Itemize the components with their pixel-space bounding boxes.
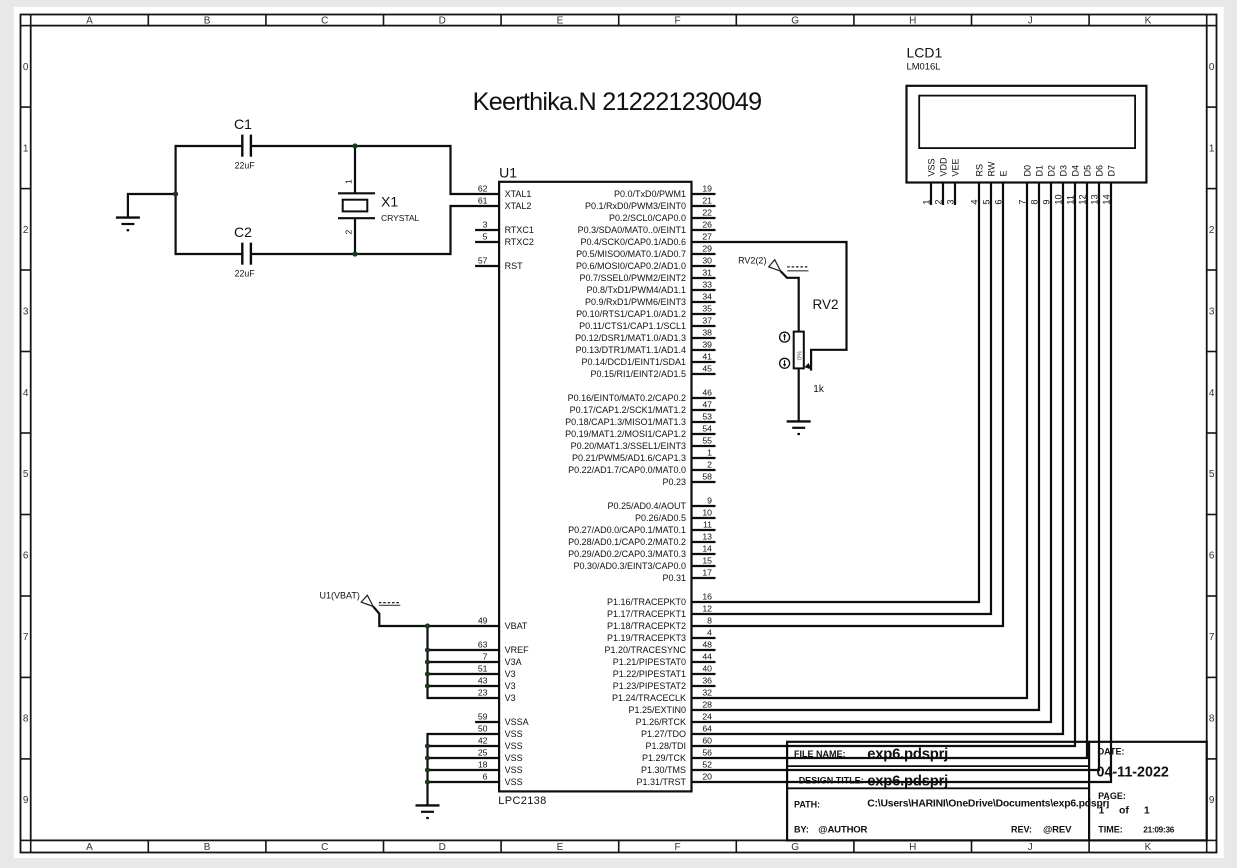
pin 6 VSS [483, 771, 523, 787]
svg-text:C1: C1 [234, 116, 252, 132]
svg-text:D4: D4 [1070, 165, 1080, 177]
svg-text:VSS: VSS [505, 777, 523, 787]
svg-text:24: 24 [702, 711, 712, 721]
svg-text:J: J [1028, 16, 1033, 27]
svg-text:P1.23/PIPESTAT2: P1.23/PIPESTAT2 [613, 681, 686, 691]
svg-text:32: 32 [702, 687, 712, 697]
svg-text:VREF: VREF [505, 645, 530, 655]
LCD pin 11 D4 [692, 165, 1081, 746]
pin 38 P0.12/DSR1/MAT1.0/AD1.3 [575, 327, 715, 343]
svg-text:37: 37 [702, 315, 712, 325]
pin 19 P0.0/TxD0/PWM1 [614, 183, 716, 199]
LCD pin 7 D0 [692, 165, 1033, 698]
svg-text:P1.22/PIPESTAT1: P1.22/PIPESTAT1 [613, 669, 686, 679]
svg-text:13: 13 [702, 531, 712, 541]
LCD pin 13 D6 [692, 165, 1105, 770]
LCD pin 6 E [692, 170, 1009, 626]
svg-text:RV2: RV2 [813, 297, 839, 312]
svg-text:P1.18/TRACEPKT2: P1.18/TRACEPKT2 [607, 621, 686, 631]
svg-text:@REV: @REV [1043, 824, 1072, 835]
title block box [787, 742, 1207, 841]
svg-text:1: 1 [1144, 805, 1150, 817]
svg-text:X1: X1 [381, 194, 398, 210]
svg-text:25: 25 [478, 747, 488, 757]
pin 40 P1.22/PIPESTAT1 [613, 663, 716, 679]
pin 41 P0.14/DCD1/EINT1/SDA1 [581, 351, 715, 367]
pin 50 VSS [478, 723, 523, 739]
crystal X1 [338, 193, 419, 223]
pin 4 P1.19/TRACEPKT3 [607, 627, 716, 643]
wire V3 pin 43 [428, 685, 500, 687]
wire XTAL1 from loop [451, 145, 500, 194]
svg-text:0: 0 [23, 62, 29, 73]
svg-text:P0.19/MAT1.2/MOSI1/CAP1.2: P0.19/MAT1.2/MOSI1/CAP1.2 [565, 429, 686, 439]
svg-text:10: 10 [702, 507, 712, 517]
ground (crystal loop) [116, 218, 140, 232]
svg-text:U1(VBAT): U1(VBAT) [320, 590, 360, 600]
svg-text:36: 36 [702, 675, 712, 685]
svg-text:U1: U1 [499, 164, 517, 180]
svg-text:38: 38 [702, 327, 712, 337]
pin 21 P0.1/RxD0/PWM3/EINT0 [585, 195, 716, 211]
RV2 up adjust circle [780, 332, 790, 342]
svg-text:P0.17/CAP1.2/SCK1/MAT1.2: P0.17/CAP1.2/SCK1/MAT1.2 [570, 405, 686, 415]
node junction VSS (42) [425, 743, 430, 748]
svg-text:P0.30/AD0.3/EINT3/CAP0.0: P0.30/AD0.3/EINT3/CAP0.0 [573, 561, 686, 571]
svg-text:59: 59 [478, 711, 488, 721]
svg-text:P0.9/RxD1/PWM6/EINT3: P0.9/RxD1/PWM6/EINT3 [585, 297, 686, 307]
svg-text:RW: RW [986, 161, 996, 176]
svg-text:P1.16/TRACEPKT0: P1.16/TRACEPKT0 [607, 597, 686, 607]
svg-text:P0.21/PWM5/AD1.6/CAP1.3: P0.21/PWM5/AD1.6/CAP1.3 [572, 453, 686, 463]
svg-text:21:09:36: 21:09:36 [1143, 825, 1174, 834]
svg-text:22: 22 [702, 207, 712, 217]
pin 26 P0.3/SDA0/MAT0..0/EINT1 [578, 219, 716, 235]
svg-text:8: 8 [23, 714, 29, 725]
svg-text:34: 34 [702, 291, 712, 301]
pin 57 RST [475, 255, 523, 271]
svg-text:DESIGN TITLE:: DESIGN TITLE: [799, 775, 864, 785]
svg-text:1: 1 [23, 143, 29, 154]
title block BY row [794, 824, 1072, 835]
pin 43 V3 [478, 675, 516, 691]
svg-text:7: 7 [483, 651, 488, 661]
wire loop left vertical [175, 145, 177, 255]
svg-text:C2: C2 [234, 224, 252, 240]
svg-text:LCD1: LCD1 [907, 45, 943, 61]
svg-text:62: 62 [478, 183, 488, 193]
capacitor C2 [234, 224, 255, 278]
LCD pin 2 VDD [933, 157, 948, 205]
svg-text:1: 1 [1209, 143, 1215, 154]
svg-text:23: 23 [478, 687, 488, 697]
svg-text:3: 3 [23, 306, 29, 317]
pin 58 P0.23 [662, 471, 715, 487]
svg-text:P1.24/TRACECLK: P1.24/TRACECLK [612, 693, 686, 703]
svg-text:17: 17 [702, 567, 712, 577]
pin 37 P0.11/CTS1/CAP1.1/SCL1 [579, 315, 715, 331]
svg-text:19: 19 [702, 183, 712, 193]
svg-text:61: 61 [478, 195, 488, 205]
wire RV2 bottom to ground [798, 368, 800, 421]
svg-text:VSS: VSS [505, 753, 523, 763]
svg-text:H: H [909, 16, 916, 27]
svg-text:29: 29 [702, 243, 712, 253]
svg-text:45: 45 [702, 363, 712, 373]
pin 33 P0.8/TxD1/PWM4/AD1.1 [586, 279, 715, 295]
wire VREF pin 63 [428, 649, 500, 651]
svg-text:PAGE:: PAGE: [1098, 791, 1126, 801]
svg-text:28: 28 [702, 699, 712, 709]
svg-text:F: F [674, 16, 680, 27]
svg-text:12: 12 [702, 603, 712, 613]
svg-text:exp6.pdsprj: exp6.pdsprj [867, 747, 948, 763]
svg-text:TIME:: TIME: [1098, 824, 1123, 834]
svg-text:D5: D5 [1082, 165, 1092, 177]
svg-text:P0.22/AD1.7/CAP0.0/MAT0.0: P0.22/AD1.7/CAP0.0/MAT0.0 [568, 465, 686, 475]
wire ground stub left [128, 194, 176, 217]
svg-text:P1.31/TRST: P1.31/TRST [636, 777, 686, 787]
svg-text:P1.21/PIPESTAT0: P1.21/PIPESTAT0 [613, 657, 686, 667]
RV2 down adjust circle [780, 358, 790, 368]
wire bottom loop left segment [176, 253, 243, 255]
pin 10 P0.26/AD0.5 [635, 507, 716, 523]
svg-text:P0.27/AD0.0/CAP0.1/MAT0.1: P0.27/AD0.0/CAP0.1/MAT0.1 [568, 525, 686, 535]
pin 5 RTXC2 [475, 231, 534, 247]
pin 42 VSS [478, 735, 523, 751]
svg-text:LPC2138: LPC2138 [498, 795, 546, 807]
wire VBAT terminal to pin 49 [373, 607, 499, 627]
terminal U1(VBAT) [320, 590, 374, 606]
svg-text:04-11-2022: 04-11-2022 [1097, 765, 1169, 781]
svg-text:22uF: 22uF [235, 160, 256, 170]
pin 32 P1.24/TRACECLK [612, 687, 712, 703]
pin 12 P1.17/TRACEPKT1 [607, 603, 712, 619]
svg-text:F: F [674, 842, 680, 853]
svg-text:VSS: VSS [505, 741, 523, 751]
RV2 wiper arrow [804, 363, 811, 370]
pin 49 VBAT [478, 615, 528, 631]
node junction VSS (18) [425, 767, 430, 772]
svg-text:RST: RST [505, 261, 524, 271]
pin 20 P1.31/TRST [636, 771, 712, 787]
svg-text:V3A: V3A [505, 657, 522, 667]
pin 7 V3A [483, 651, 522, 667]
svg-text:9: 9 [1209, 795, 1215, 806]
LCD pin 3 VEE [945, 158, 960, 205]
svg-text:E: E [998, 170, 1008, 176]
pin 8 P1.18/TRACEPKT2 [607, 615, 712, 631]
node junction V3 (51) [425, 671, 430, 676]
pin 25 VSS [478, 747, 523, 763]
svg-text:C:\Users\HARINI\OneDrive\Docum: C:\Users\HARINI\OneDrive\Documents\exp6.… [867, 799, 1109, 810]
svg-text:G: G [791, 842, 799, 853]
svg-text:6: 6 [23, 551, 29, 562]
pin 13 P0.28/AD0.1/CAP0.2/MAT0.2 [568, 531, 715, 547]
svg-text:63: 63 [478, 639, 488, 649]
svg-text:D6: D6 [1094, 165, 1104, 177]
svg-text:P0.2/SCL0/CAP0.0: P0.2/SCL0/CAP0.0 [609, 213, 686, 223]
pin 34 P0.9/RxD1/PWM6/EINT3 [585, 291, 716, 307]
svg-text:E: E [557, 16, 564, 27]
svg-text:VSS: VSS [505, 729, 523, 739]
svg-text:RV2(2): RV2(2) [738, 256, 766, 266]
pin 35 P0.10/RTS1/CAP1.0/AD1.2 [576, 303, 715, 319]
svg-text:VSSA: VSSA [505, 717, 529, 727]
pin 15 P0.30/AD0.3/EINT3/CAP0.0 [573, 555, 715, 571]
svg-text:D0: D0 [1022, 165, 1032, 177]
wire V3A pin 7 [428, 661, 500, 663]
svg-text:3: 3 [483, 219, 488, 229]
svg-text:PATH:: PATH: [794, 800, 820, 810]
svg-text:P0.13/DTR1/MAT1.1/AD1.4: P0.13/DTR1/MAT1.1/AD1.4 [576, 345, 686, 355]
pin 62 XTAL1 [478, 183, 532, 199]
svg-text:REV:: REV: [1011, 824, 1032, 834]
svg-text:LM016L: LM016L [907, 61, 941, 72]
svg-text:5: 5 [23, 469, 29, 480]
node junction V3A [425, 659, 430, 664]
pin 52 P1.30/TMS [641, 759, 712, 775]
svg-text:50: 50 [478, 723, 488, 733]
svg-text:RTXC1: RTXC1 [505, 225, 534, 235]
pin 48 P1.20/TRACESYNC [604, 639, 715, 655]
svg-text:P1.20/TRACESYNC: P1.20/TRACESYNC [604, 645, 686, 655]
svg-text:1: 1 [707, 447, 712, 457]
LCD pin 10 D3 [692, 165, 1069, 734]
node junction loop top [352, 143, 357, 148]
title block PATH row [794, 799, 1109, 810]
pin 51 V3 [478, 663, 516, 679]
pin 11 P0.27/AD0.0/CAP0.1/MAT0.1 [568, 519, 715, 535]
wire VSS pin 18 [428, 769, 500, 771]
svg-text:6: 6 [483, 771, 488, 781]
pin 64 P1.27/TDO [641, 723, 712, 739]
wire VSS pin 25 [428, 757, 500, 759]
title block TIME cell [1098, 824, 1174, 834]
svg-text:D1: D1 [1034, 165, 1044, 177]
svg-text:P0.28/AD0.1/CAP0.2/MAT0.2: P0.28/AD0.1/CAP0.2/MAT0.2 [568, 537, 686, 547]
title block DESIGN TITLE row [799, 773, 948, 789]
node junction VSS (25) [425, 755, 430, 760]
pin 31 P0.7/SSEL0/PWM2/EINT2 [579, 267, 715, 283]
svg-text:26: 26 [702, 219, 712, 229]
svg-text:8: 8 [707, 615, 712, 625]
svg-text:27: 27 [702, 231, 712, 241]
pin 27 P0.4/SCK0/CAP0.1/AD0.6 [580, 231, 712, 247]
svg-text:P1.28/TDI: P1.28/TDI [645, 741, 686, 751]
wire VSS pin 42 [428, 745, 500, 747]
svg-text:RTXC2: RTXC2 [505, 237, 534, 247]
svg-text:P1.19/TRACEPKT3: P1.19/TRACEPKT3 [607, 633, 686, 643]
svg-text:P0.4/SCK0/CAP0.1/AD0.6: P0.4/SCK0/CAP0.1/AD0.6 [580, 237, 686, 247]
svg-text:7: 7 [23, 632, 29, 643]
pin 9 P0.25/AD0.4/AOUT [607, 495, 715, 511]
svg-text:D7: D7 [1106, 165, 1116, 177]
svg-text:11: 11 [703, 519, 712, 529]
svg-text:Keerthika.N 212221230049: Keerthika.N 212221230049 [473, 88, 762, 116]
svg-text:D2: D2 [1046, 165, 1056, 177]
pin 1 P0.21/PWM5/AD1.6/CAP1.3 [572, 447, 716, 463]
svg-text:49: 49 [478, 615, 488, 625]
svg-text:XTAL2: XTAL2 [505, 201, 532, 211]
svg-text:52: 52 [702, 759, 712, 769]
svg-text:2: 2 [23, 225, 29, 236]
svg-text:V3: V3 [505, 669, 516, 679]
svg-text:P0.26/AD0.5: P0.26/AD0.5 [635, 513, 686, 523]
title block PAGE cell [1098, 791, 1150, 816]
svg-text:G: G [791, 16, 799, 27]
svg-text:P1.26/RTCK: P1.26/RTCK [636, 717, 686, 727]
pin 17 P0.31 [662, 567, 715, 583]
svg-text:7: 7 [1209, 632, 1215, 643]
pin 53 P0.18/CAP1.3/MISO1/MAT1.3 [565, 411, 715, 427]
capacitor C1 [234, 116, 255, 170]
svg-text:22uF: 22uF [235, 268, 256, 278]
pin 36 P1.23/PIPESTAT2 [613, 675, 716, 691]
svg-text:4: 4 [23, 388, 29, 399]
svg-text:P1.17/TRACEPKT1: P1.17/TRACEPKT1 [607, 609, 686, 619]
svg-text:H: H [909, 842, 916, 853]
svg-text:B: B [204, 842, 211, 853]
op-amp U1 body (LPC2138 microcontroller) [499, 182, 691, 792]
pin 39 P0.13/DTR1/MAT1.1/AD1.4 [576, 339, 716, 355]
svg-text:1k: 1k [813, 384, 825, 395]
svg-text:P0.8/TxD1/PWM4/AD1.1: P0.8/TxD1/PWM4/AD1.1 [586, 285, 686, 295]
svg-text:33: 33 [702, 279, 712, 289]
svg-text:J: J [1028, 842, 1033, 853]
svg-text:P1.27/TDO: P1.27/TDO [641, 729, 686, 739]
svg-text:@AUTHOR: @AUTHOR [818, 824, 867, 835]
pin 2 P0.22/AD1.7/CAP0.0/MAT0.0 [568, 459, 715, 475]
LCD pin 4 RS [692, 164, 985, 602]
pin 44 P1.21/PIPESTAT0 [613, 651, 716, 667]
svg-text:39: 39 [702, 339, 712, 349]
svg-text:BY:: BY: [794, 824, 809, 834]
svg-text:D: D [439, 16, 446, 27]
terminal RV2(2) [738, 256, 781, 272]
svg-text:5: 5 [1209, 469, 1215, 480]
svg-text:58: 58 [702, 471, 712, 481]
wire VSS pin 50 [428, 733, 500, 735]
node junction VSS (6) [425, 779, 430, 784]
ground (RV2) [787, 421, 811, 435]
pin 28 P1.25/EXTIN0 [628, 699, 712, 715]
svg-text:V3: V3 [505, 693, 516, 703]
svg-text:8: 8 [1209, 714, 1215, 725]
svg-text:P0.3/SDA0/MAT0..0/EINT1: P0.3/SDA0/MAT0..0/EINT1 [578, 225, 686, 235]
svg-text:of: of [1119, 805, 1129, 817]
pin 54 P0.19/MAT1.2/MOSI1/CAP1.2 [565, 423, 715, 439]
svg-text:A: A [86, 16, 93, 27]
svg-text:V3: V3 [505, 681, 516, 691]
pin 14 P0.29/AD0.2/CAP0.3/MAT0.3 [568, 543, 715, 559]
ground (VSS bus) [416, 805, 440, 819]
svg-text:21: 21 [702, 195, 712, 205]
pin 18 VSS [478, 759, 523, 775]
svg-text:0%: 0% [796, 351, 803, 361]
svg-text:2: 2 [1209, 225, 1215, 236]
svg-text:14: 14 [702, 543, 712, 553]
svg-text:53: 53 [702, 411, 712, 421]
svg-text:40: 40 [702, 663, 712, 673]
svg-text:XTAL1: XTAL1 [505, 189, 532, 199]
svg-text:20: 20 [702, 771, 712, 781]
svg-text:41: 41 [702, 351, 712, 361]
svg-text:P0.20/MAT1.3/SSEL1/EINT3: P0.20/MAT1.3/SSEL1/EINT3 [571, 441, 686, 451]
svg-text:P0.0/TxD0/PWM1: P0.0/TxD0/PWM1 [614, 189, 686, 199]
pin 56 P1.29/TCK [642, 747, 712, 763]
svg-text:K: K [1145, 842, 1152, 853]
svg-text:31: 31 [702, 267, 712, 277]
pin 23 V3 [478, 687, 516, 703]
svg-text:RS: RS [974, 164, 984, 177]
svg-text:1: 1 [344, 179, 354, 184]
LCD pin 1 VSS [921, 158, 936, 205]
svg-text:16: 16 [702, 591, 712, 601]
svg-text:P0.15/RI1/EINT2/AD1.5: P0.15/RI1/EINT2/AD1.5 [590, 369, 686, 379]
node junction VBAT [425, 623, 430, 628]
wire V3 pin 23 [428, 697, 500, 699]
svg-text:P0.25/AD0.4/AOUT: P0.25/AD0.4/AOUT [607, 501, 686, 511]
wire VBAT bus vertical [426, 626, 428, 699]
svg-text:P1.25/EXTIN0: P1.25/EXTIN0 [628, 705, 686, 715]
svg-text:VDD: VDD [938, 157, 948, 177]
svg-text:K: K [1145, 16, 1152, 27]
svg-text:D3: D3 [1058, 165, 1068, 177]
svg-text:1: 1 [1099, 805, 1105, 817]
potentiometer RV2 [794, 332, 804, 369]
svg-text:CRYSTAL: CRYSTAL [381, 213, 419, 223]
svg-text:P0.31: P0.31 [662, 573, 686, 583]
svg-text:P0.10/RTS1/CAP1.0/AD1.2: P0.10/RTS1/CAP1.0/AD1.2 [576, 309, 686, 319]
svg-text:56: 56 [702, 747, 712, 757]
wire top loop right segment [251, 145, 451, 147]
pin 30 P0.6/MOSI0/CAP0.2/AD1.0 [576, 255, 716, 271]
node junction ground tap [173, 191, 178, 196]
svg-text:3: 3 [1209, 306, 1215, 317]
svg-text:18: 18 [478, 759, 488, 769]
svg-text:P0.6/MOSI0/CAP0.2/AD1.0: P0.6/MOSI0/CAP0.2/AD1.0 [576, 261, 686, 271]
LCD pin 12 D5 [692, 165, 1093, 758]
svg-text:P0.29/AD0.2/CAP0.3/MAT0.3: P0.29/AD0.2/CAP0.3/MAT0.3 [568, 549, 686, 559]
svg-text:P0.11/CTS1/CAP1.1/SCL1: P0.11/CTS1/CAP1.1/SCL1 [579, 321, 686, 331]
svg-text:57: 57 [478, 255, 488, 265]
svg-text:B: B [204, 16, 211, 27]
wire crystal bottom branch [354, 218, 356, 254]
svg-text:P0.1/RxD0/PWM3/EINT0: P0.1/RxD0/PWM3/EINT0 [585, 201, 686, 211]
svg-text:9: 9 [707, 495, 712, 505]
pin 55 P0.20/MAT1.3/SSEL1/EINT3 [571, 435, 716, 451]
svg-text:D: D [439, 842, 446, 853]
svg-text:51: 51 [478, 663, 488, 673]
svg-text:43: 43 [478, 675, 488, 685]
svg-text:VBAT: VBAT [505, 621, 528, 631]
wire pin 27 to RV2 wiper [692, 242, 847, 371]
svg-text:42: 42 [478, 735, 488, 745]
svg-text:0: 0 [1209, 62, 1215, 73]
title block DATE cell [1097, 746, 1169, 780]
svg-text:P0.12/DSR1/MAT1.0/AD1.3: P0.12/DSR1/MAT1.0/AD1.3 [575, 333, 686, 343]
svg-text:C: C [321, 842, 328, 853]
node junction V3 (43) [425, 683, 430, 688]
svg-text:P0.5/MISO0/MAT0.1/AD0.7: P0.5/MISO0/MAT0.1/AD0.7 [576, 249, 686, 259]
svg-text:C: C [321, 16, 328, 27]
svg-text:54: 54 [702, 423, 712, 433]
svg-text:P0.16/EINT0/MAT0.2/CAP0.2: P0.16/EINT0/MAT0.2/CAP0.2 [568, 393, 686, 403]
LCD pin 14 D7 [692, 165, 1117, 782]
svg-text:2: 2 [344, 230, 354, 235]
title block FILE NAME row [794, 747, 948, 763]
